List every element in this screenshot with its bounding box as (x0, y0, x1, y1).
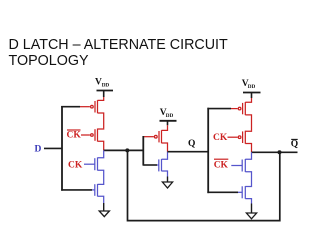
transistor NMOS2 (gate from D bus) (92, 184, 104, 203)
VDD rail middle (160, 120, 177, 122)
label Qbar (291, 140, 298, 150)
svg-text:CK: CK (67, 131, 82, 141)
VDD label left (95, 78, 109, 89)
wire VDD to PMOS drain middle (167, 121, 169, 126)
transistor PMOS4 (gate CK) (228, 131, 252, 153)
input gate bus middle (142, 136, 144, 166)
svg-text:DD: DD (166, 113, 174, 119)
svg-text:D: D (35, 144, 42, 154)
transistor PMOS middle (144, 130, 168, 152)
VDD rail left (97, 90, 114, 92)
wire VDD to PMOS1 drain (103, 91, 105, 98)
label CK right (213, 133, 228, 143)
node X junction dot (125, 148, 129, 152)
transistor NMOS4 (gate from Q bus) (238, 186, 252, 203)
node line to Qbar (252, 151, 298, 153)
wire black part of PMOS3 gate lead (207, 108, 231, 110)
wire Q output line (168, 151, 209, 153)
node line from left stack to middle inverter (104, 149, 144, 151)
wire feedback from Qbar node to node X (128, 152, 280, 221)
transistor NMOS middle (157, 152, 168, 177)
VDD label right (242, 79, 256, 90)
label CK left (68, 160, 83, 170)
D input gate bus (vertical) (61, 106, 63, 191)
transistor PMOS1 (gate from D bus) (80, 100, 104, 129)
svg-text:DD: DD (248, 84, 256, 90)
ground left (99, 211, 109, 217)
wire NMOS2 source to ground (103, 203, 105, 211)
wire middle NMOS source to ground (167, 177, 169, 183)
svg-text:Q: Q (188, 139, 195, 149)
ground middle (162, 182, 172, 188)
transistor PMOS2 (gate CKbar) (81, 129, 104, 151)
wire black part of NMOS4 gate lead (207, 191, 238, 193)
label CKbar left (67, 131, 82, 141)
VDD rail right (243, 92, 261, 94)
wire black part of NMOS2 gate lead (61, 189, 92, 191)
svg-text:CK: CK (214, 161, 229, 171)
transistor NMOS1 (gate CK) (84, 150, 104, 184)
VDD label middle (160, 108, 174, 119)
transistor PMOS3 (gate from Q bus) (231, 102, 252, 131)
wire black part of middle NMOS gate lead (143, 164, 157, 166)
svg-text:Q: Q (291, 140, 298, 150)
wire black part of PMOS1 gate lead (61, 106, 80, 108)
ground right (246, 213, 256, 219)
svg-text:CK: CK (213, 133, 228, 143)
wire VDD to PMOS3 drain (251, 93, 253, 99)
node Qbar junction dot (278, 150, 282, 154)
wire D input (44, 147, 62, 149)
transistor NMOS3 (gate CKbar) (231, 152, 251, 186)
label CKbar right (214, 161, 229, 171)
Q input gate bus right (vertical) (207, 108, 209, 193)
svg-text:DD: DD (102, 83, 110, 89)
wire NMOS4 source to ground (251, 204, 253, 214)
svg-text:CK: CK (68, 160, 83, 170)
